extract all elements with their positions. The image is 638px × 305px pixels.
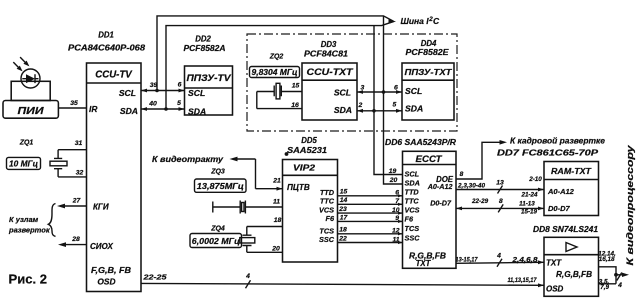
wire vertical drop x383.5 to DD6 pin 20 — [384, 16, 403, 184]
svg-text:PCA84C640P-068: PCA84C640P-068 — [68, 44, 145, 53]
svg-text:SCL: SCL — [334, 87, 351, 97]
svg-text:TTC: TTC — [320, 197, 335, 206]
svg-text:VIP2: VIP2 — [293, 162, 315, 172]
svg-text:DD8 SN74LS241: DD8 SN74LS241 — [533, 225, 599, 234]
stray ink dot near DD5 corner — [285, 152, 289, 156]
IC DD5 SAA5231 VIP2 — [283, 136, 338, 262]
label К видеотракту with arrow — [152, 154, 283, 191]
svg-text:35: 35 — [70, 100, 78, 107]
svg-text:К узлам: К узлам — [9, 215, 39, 224]
svg-text:F,G,B, FB: F,G,B, FB — [91, 266, 131, 275]
IC DD8 SN74LS241 buffer — [533, 225, 599, 296]
svg-text:DD7 FC861C65-70P: DD7 FC861C65-70P — [497, 147, 598, 157]
svg-text:22-29: 22-29 — [471, 198, 489, 205]
crystal ZQ3 with wire to DD5 pin 11 and ground terminal — [213, 199, 283, 214]
svg-text:22-25: 22-25 — [142, 273, 167, 282]
svg-text:ПЦТВ: ПЦТВ — [287, 183, 310, 192]
bus OSD DD1 pins 22-25 to DD8 — [141, 273, 544, 289]
svg-text:КГИ: КГИ — [93, 203, 109, 212]
svg-text:6: 6 — [394, 85, 398, 92]
wire VCS DD5 to DD6 — [338, 206, 403, 215]
svg-text:13: 13 — [496, 180, 504, 187]
svg-text:11-13: 11-13 — [519, 200, 535, 207]
svg-text:5: 5 — [393, 102, 397, 109]
svg-text:15: 15 — [292, 83, 300, 90]
svg-text:F6: F6 — [405, 214, 414, 223]
svg-text:ЕССТ: ЕССТ — [416, 154, 444, 164]
svg-text:21-24: 21-24 — [520, 191, 538, 198]
bus A0-A12 DD6 to DD7 — [456, 176, 544, 198]
svg-text:SDA: SDA — [405, 179, 420, 188]
svg-text:R,G,B,FB: R,G,B,FB — [556, 270, 592, 279]
svg-text:20: 20 — [389, 177, 398, 184]
IC DD1 PCA84C640P-068 CCU-TV — [68, 31, 145, 292]
node К узлам разверток brace and label — [8, 204, 56, 237]
svg-text:СИОХ: СИОХ — [90, 242, 114, 251]
svg-text:RAM-ТХТ: RAM-ТХТ — [551, 166, 592, 176]
svg-text:К кадровой развертке: К кадровой развертке — [510, 136, 605, 146]
svg-text:SCL: SCL — [119, 88, 136, 98]
net I2C bus SCL line (outer) — [157, 16, 394, 91]
wire TCS DD5 to DD6 — [338, 227, 403, 236]
svg-text:4: 4 — [496, 253, 501, 260]
svg-text:CCU-TV: CCU-TV — [95, 70, 133, 81]
svg-text:20: 20 — [271, 246, 280, 253]
wire КГИ pin 27 arrow — [57, 198, 87, 209]
IR receiver box ПИИ — [3, 101, 58, 119]
svg-text:CCU-ТХТ: CCU-ТХТ — [307, 67, 354, 77]
svg-text:ZQ1: ZQ1 — [19, 139, 34, 146]
wire SSC DD5 to DD6 — [338, 235, 403, 244]
svg-text:40: 40 — [148, 101, 157, 108]
svg-text:6,0002 МГц: 6,0002 МГц — [192, 237, 240, 246]
svg-text:К видеопроцессору: К видеопроцессору — [625, 145, 636, 266]
svg-text:2,3,30-40: 2,3,30-40 — [457, 182, 486, 189]
IC DD6 SAA5243P/R ЕССТ — [385, 138, 456, 268]
svg-text:3: 3 — [361, 85, 365, 92]
svg-text:PCF84C81: PCF84C81 — [304, 50, 348, 59]
svg-text:Шина I2С: Шина I2С — [401, 16, 440, 26]
svg-text:ТХТ: ТХТ — [546, 259, 562, 268]
svg-text:5: 5 — [177, 100, 181, 107]
wire TTC DD5 to DD6 — [338, 197, 403, 206]
svg-text:28: 28 — [71, 236, 80, 243]
svg-text:разверток: разверток — [8, 226, 51, 235]
svg-text:TTD: TTD — [320, 188, 335, 197]
svg-text:18: 18 — [339, 227, 347, 234]
svg-text:DD3: DD3 — [321, 40, 337, 49]
wire ПИИ to DD1 pin 35 — [58, 100, 86, 108]
wire SDA DD3 to DD4 — [357, 102, 402, 113]
svg-text:SDA: SDA — [405, 103, 423, 113]
svg-text:14: 14 — [340, 197, 348, 204]
svg-text:PCF8582E: PCF8582E — [406, 48, 450, 57]
svg-text:2,4,6,8: 2,4,6,8 — [511, 257, 537, 264]
IC DD7 FC861C65-70P RAM-TXT — [497, 147, 599, 215]
svg-text:13-15,17: 13-15,17 — [456, 257, 478, 264]
junction dot SCL at x157 — [155, 89, 159, 93]
value label ZQ4 6,0002 МГц — [190, 226, 242, 248]
svg-text:К видеотракту: К видеотракту — [152, 154, 224, 164]
dash-dot module box around DD3 DD4 — [247, 34, 457, 131]
svg-text:32: 32 — [76, 169, 84, 176]
svg-text:27: 27 — [72, 198, 82, 205]
svg-text:2-10: 2-10 — [528, 176, 542, 183]
wire SCL DD3 to DD4 — [357, 85, 402, 94]
junction dot on DD3-DD4 SDA wire — [372, 109, 376, 113]
svg-text:SDA: SDA — [188, 106, 206, 116]
svg-text:15: 15 — [340, 188, 348, 195]
svg-text:9: 9 — [395, 215, 399, 222]
svg-text:7,9: 7,9 — [600, 284, 609, 291]
IC DD3 PCF84C81 CCU-TXT — [302, 40, 357, 120]
svg-text:4: 4 — [245, 273, 250, 280]
svg-text:IR: IR — [89, 104, 97, 114]
svg-text:SCL: SCL — [405, 86, 422, 96]
svg-text:SCL: SCL — [405, 169, 420, 178]
bus D0-D7 DD6 to DD7 — [456, 198, 544, 216]
svg-text:19: 19 — [389, 168, 397, 175]
svg-text:TTD: TTD — [405, 188, 420, 197]
svg-text:17: 17 — [340, 214, 349, 221]
svg-text:6: 6 — [395, 190, 399, 197]
svg-text:ZQ2: ZQ2 — [269, 54, 284, 61]
node К видеопроцессору vertical label — [625, 145, 636, 266]
svg-text:12: 12 — [392, 228, 400, 235]
svg-text:A0-A12: A0-A12 — [547, 187, 575, 196]
svg-text:16,18: 16,18 — [599, 256, 615, 263]
svg-text:11,13,15,17: 11,13,15,17 — [508, 277, 537, 284]
svg-text:ТХТ: ТХТ — [416, 259, 432, 268]
node Шина I2C arrowhead and label — [389, 16, 440, 26]
svg-text:10 МГц: 10 МГц — [9, 160, 38, 169]
bus TXT DD6 to DD8 — [456, 253, 545, 267]
svg-text:PCF8582A: PCF8582A — [184, 44, 226, 53]
value label ZQ1 10 МГц — [7, 139, 41, 169]
svg-text:SDA: SDA — [334, 105, 352, 115]
junction dot on DD3-DD4 SCL wire — [382, 90, 386, 94]
svg-text:D0-D7: D0-D7 — [548, 204, 571, 213]
svg-text:11: 11 — [392, 236, 399, 243]
svg-text:10: 10 — [392, 207, 400, 214]
svg-text:SCL: SCL — [188, 88, 205, 98]
svg-text:22: 22 — [338, 235, 347, 242]
svg-text:DD4: DD4 — [421, 39, 437, 48]
svg-text:23: 23 — [338, 206, 347, 213]
svg-text:4: 4 — [617, 282, 622, 289]
svg-text:SDA: SDA — [120, 106, 138, 116]
svg-text:18: 18 — [274, 217, 282, 224]
svg-text:13,875МГц: 13,875МГц — [197, 182, 244, 191]
photodiode IR sensor with arrows — [13, 57, 40, 88]
svg-text:TCS: TCS — [405, 224, 420, 233]
wire СИОХ pin 28 arrow — [58, 236, 87, 247]
svg-text:TCS: TCS — [319, 226, 334, 235]
IC DD4 PCF8582E ППЗУ-ТХТ — [402, 39, 454, 120]
svg-text:A0-A12: A0-A12 — [427, 182, 453, 191]
junction dot SDA at x166 — [164, 107, 168, 111]
wire DOE to К кадровой развертке — [456, 136, 605, 179]
wire TTD DD5 to DD6 — [338, 188, 403, 197]
wire vertical drop x374 to DD6 pin 19 — [374, 26, 403, 175]
svg-text:ППЗУ-TV: ППЗУ-TV — [187, 73, 232, 83]
svg-text:DD1: DD1 — [98, 31, 114, 40]
IC DD2 PCF8582A ППЗУ-TV — [184, 35, 233, 117]
svg-text:SAA5231: SAA5231 — [287, 146, 327, 155]
value label ZQ2 9,8304 МГц — [250, 54, 300, 78]
wire F6 DD5 to DD6 — [338, 214, 403, 223]
crystal ZQ1 with wires to DD1 pins 31 32 — [50, 140, 87, 177]
svg-text:F6: F6 — [325, 214, 334, 223]
wire DD8 outputs to К видеопроцессору — [598, 250, 629, 290]
svg-text:TTC: TTC — [405, 197, 420, 206]
svg-text:8: 8 — [499, 198, 503, 205]
svg-text:15-19: 15-19 — [521, 209, 538, 216]
svg-text:ПИИ: ПИИ — [18, 106, 45, 117]
wire SDA DD1 to DD2 — [141, 100, 185, 111]
svg-text:2: 2 — [358, 102, 363, 109]
svg-text:OSD: OSD — [546, 285, 564, 294]
svg-text:OSD: OSD — [97, 277, 115, 287]
svg-text:11: 11 — [273, 199, 280, 206]
net I2C bus SDA line (inner) — [166, 22, 394, 109]
photodiode module upper box — [11, 81, 50, 100]
svg-text:DD2: DD2 — [195, 35, 211, 44]
wire SCL DD1 to DD2 — [141, 82, 185, 93]
svg-text:D0-D7: D0-D7 — [430, 199, 452, 208]
svg-text:6: 6 — [178, 82, 182, 89]
crystal ZQ4 with wires to DD5 pins 18 20 — [240, 217, 283, 253]
svg-text:SSC: SSC — [405, 233, 421, 242]
svg-text:DD5: DD5 — [301, 136, 317, 145]
svg-text:Рис. 2: Рис. 2 — [9, 273, 48, 287]
svg-text:31: 31 — [75, 140, 83, 147]
svg-text:ZQ4: ZQ4 — [210, 226, 225, 233]
svg-text:8: 8 — [460, 171, 464, 178]
svg-text:16: 16 — [291, 102, 299, 109]
crystal ZQ2 with wires to DD3 pins 15 16 — [257, 83, 302, 110]
value label ZQ3 13,875 МГц — [195, 169, 247, 193]
svg-text:ZQ3: ZQ3 — [210, 169, 225, 176]
svg-text:39: 39 — [150, 82, 158, 89]
svg-text:21: 21 — [272, 178, 281, 185]
svg-text:9,8304 МГц: 9,8304 МГц — [252, 68, 298, 77]
svg-text:DD6 SAA5243P/R: DD6 SAA5243P/R — [385, 138, 456, 147]
svg-text:SSC: SSC — [319, 235, 335, 244]
svg-text:ППЗУ-ТХТ: ППЗУ-ТХТ — [405, 67, 453, 77]
